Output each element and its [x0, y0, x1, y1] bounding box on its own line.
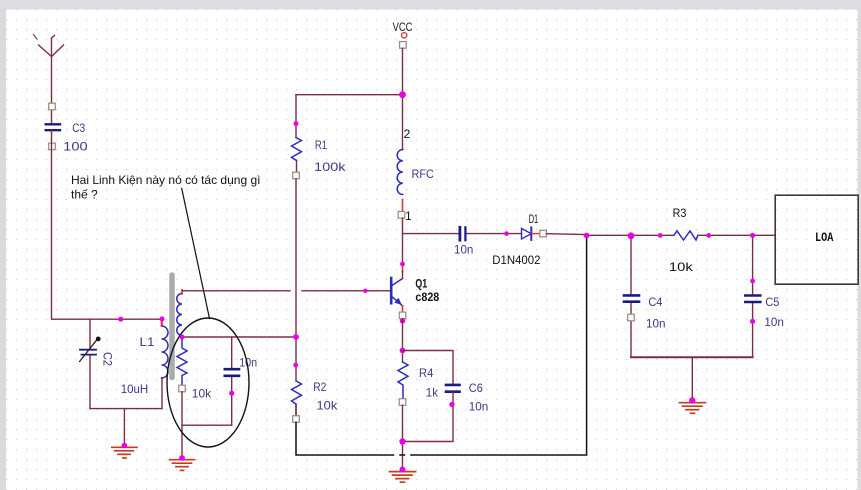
junction dot C5 branch [750, 233, 755, 238]
junction dot collector [400, 262, 405, 267]
red tick primary top [161, 321, 163, 327]
junction dot D1 output node [584, 233, 590, 239]
svg-text:10n: 10n [764, 315, 784, 329]
main signal rail to diode [403, 233, 522, 235]
svg-text:10k: 10k [317, 398, 339, 412]
svg-text:R1: R1 [315, 138, 327, 152]
wire RFC to collector node [402, 218, 404, 264]
junction dot R3 right pin [706, 233, 711, 238]
stray mark top-left [34, 35, 38, 40]
svg-text:10n: 10n [646, 316, 666, 330]
resistor 10k (secondary load) [177, 337, 187, 385]
svg-text:2: 2 [404, 127, 411, 141]
wire rail to ground [691, 357, 693, 400]
right rail precise [587, 234, 776, 236]
C4 pin square [628, 314, 635, 321]
red tick RFC pin 1 [402, 200, 404, 212]
junction dot C5 lower [750, 319, 755, 324]
R1 pin square [293, 172, 300, 179]
red tick emitter [402, 306, 404, 312]
junction dot R1/R2 node [293, 334, 299, 340]
wire R1 to R2 [295, 179, 297, 380]
resistor R4 [398, 362, 408, 399]
junction dot on R2 wire [293, 363, 298, 368]
R4 pin square [399, 399, 406, 406]
RFC pin square [398, 212, 405, 219]
window border top [0, 0, 861, 10]
box left edge wire (C2 branch) [89, 319, 91, 408]
junction dot secondary bottom [180, 335, 185, 340]
diode D1 [522, 227, 532, 240]
annotation leader line [182, 188, 210, 318]
junction dot base [363, 289, 367, 293]
capacitor C4 plates [624, 295, 639, 301]
svg-text:Hai Linh Kiện này nó có tác dụ: Hai Linh Kiện này nó có tác dụng gì [71, 173, 260, 187]
svg-text:RFC: RFC [412, 167, 435, 181]
red tick diode cathode [531, 233, 540, 235]
svg-text:D1N4002: D1N4002 [492, 253, 540, 267]
wire R4 bottom [402, 405, 404, 469]
junction dot before diode [504, 231, 509, 236]
junction dot emitter [400, 318, 405, 323]
svg-text:10n: 10n [454, 242, 473, 256]
junction dot ground 10k [179, 455, 185, 461]
red tick collector [402, 266, 404, 272]
wire C3 to box corner [52, 130, 91, 319]
svg-text:C5: C5 [765, 295, 779, 309]
svg-text:100: 100 [63, 140, 88, 154]
box bottom edge wire [90, 408, 162, 410]
inductor L1 primary coil [162, 326, 169, 378]
box right edge wire (L1 branch) [161, 319, 163, 408]
junction dot ground Q1 [400, 467, 406, 473]
capacitor C6 plates [446, 385, 460, 392]
wire 10k bottom to ground / loop bottom [181, 392, 183, 458]
capacitor 10n (inner) plates [225, 369, 239, 376]
svg-text:LOA: LOA [815, 231, 834, 245]
R2 pin square [293, 416, 300, 423]
variable capacitor C2 [80, 337, 101, 362]
C4 branch wire [630, 235, 632, 358]
resistor R2 [292, 381, 302, 416]
resistor R3 [674, 231, 698, 240]
junction dot C6 bottom [449, 402, 454, 407]
ground (under Q1) [390, 472, 416, 483]
svg-text:c828: c828 [415, 290, 439, 304]
speaker box LOA [775, 195, 858, 284]
bottom rail C4-C5 [631, 356, 753, 358]
ground (under tank box) [112, 447, 137, 458]
ground (under 10k) [170, 460, 195, 471]
wire secondary top to Q1 base [182, 290, 390, 292]
inductor secondary coil [177, 294, 182, 336]
svg-text:L1: L1 [140, 335, 155, 349]
svg-text:R2: R2 [313, 380, 326, 394]
wire R1 top rail [296, 94, 403, 96]
inductor RFC [397, 150, 403, 195]
10k pin square [179, 385, 186, 392]
R4/C6 loop top wire [403, 351, 454, 384]
C5 branch wire [752, 235, 754, 358]
junction dot box top wire [118, 317, 123, 322]
svg-text:1: 1 [405, 209, 412, 223]
ground (right) [680, 403, 706, 414]
svg-text:C3: C3 [72, 121, 85, 135]
wire box bottom to ground [123, 409, 125, 446]
svg-text:R4: R4 [419, 366, 434, 380]
red tick secondary top [181, 290, 183, 294]
transformer core bar [169, 275, 175, 378]
wire diode to right rail [546, 233, 586, 236]
junction dot R4 bottom [399, 438, 405, 444]
box top edge wire [90, 318, 162, 320]
capacitor C5 plates [745, 296, 760, 303]
junction dot C5 upper [750, 279, 755, 284]
svg-text:C2: C2 [101, 352, 115, 366]
C3 pin squares [49, 103, 56, 150]
coupling capacitor 10n plates [460, 227, 466, 240]
svg-text:D1: D1 [529, 212, 539, 226]
svg-text:10k: 10k [192, 387, 212, 401]
capacitor C3 [46, 124, 60, 130]
annotation ellipse [167, 318, 249, 447]
antenna [39, 36, 64, 125]
svg-text:Q1: Q1 [415, 277, 427, 291]
svg-text:100k: 100k [314, 160, 346, 174]
junction dot ground tank [122, 443, 128, 449]
wire emitter to R4 [402, 319, 404, 362]
junction dot on R1 wire [294, 121, 299, 126]
black return wire rectangle [296, 236, 587, 455]
loop bottom wire [182, 424, 232, 426]
wire VCC down to RFC [402, 48, 404, 149]
svg-text:VCC: VCC [393, 20, 413, 34]
window border left [0, 10, 6, 490]
svg-text:C4: C4 [648, 295, 662, 309]
wire collector short [402, 271, 404, 278]
D1 pin square [540, 230, 547, 237]
tank box wires (C2/L1 loop) [90, 319, 162, 445]
svg-text:10k: 10k [669, 260, 694, 274]
wire secondary bottom to R1/R2 junction [182, 336, 296, 338]
svg-text:10n: 10n [469, 400, 489, 414]
svg-text:C6: C6 [469, 381, 483, 395]
junction dot C4 branch [628, 232, 635, 239]
black tick at emitter crossing [400, 454, 405, 456]
svg-text:thế ?: thế ? [71, 188, 98, 202]
svg-text:R3: R3 [673, 206, 687, 220]
resistor R1 [295, 95, 298, 172]
junction dot ground right [689, 397, 695, 403]
junction dot 10n bottom [229, 391, 234, 396]
junction dot R3 left pin [658, 233, 663, 238]
C6 bottom wire / loop bottom [403, 392, 454, 442]
junction dot R4 top [400, 348, 406, 354]
capacitor 10n (inner) leads [231, 337, 233, 425]
transistor Q1 [391, 278, 402, 306]
svg-text:10uH: 10uH [121, 382, 149, 396]
junction dot box top right [160, 316, 165, 321]
Q1 emitter pin square [399, 312, 406, 319]
junction dot VCC/R1 [399, 91, 406, 98]
svg-text:1k: 1k [426, 386, 439, 400]
window border right [858, 10, 861, 490]
